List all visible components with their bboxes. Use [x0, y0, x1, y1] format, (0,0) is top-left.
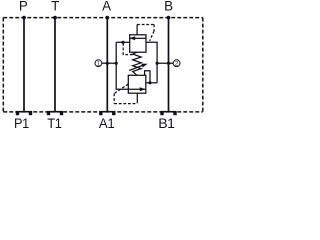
- wire left connect to upper square: [116, 41, 130, 43]
- port B1 flange symbol: [160, 111, 176, 115]
- port A1 flange symbol: [99, 111, 115, 115]
- valve lower spool arrow line: [128, 88, 145, 90]
- wire gauge line right: [157, 62, 173, 64]
- node T top junction: [53, 16, 57, 20]
- svg-text:B: B: [164, 0, 173, 14]
- wire P line: [23, 18, 25, 112]
- svg-text:A: A: [102, 0, 111, 14]
- valve upper spool arrow line: [130, 37, 146, 39]
- pilot line dashed top horizontal: [137, 24, 154, 26]
- enclosure dashed border: [3, 18, 203, 112]
- spring: [133, 52, 141, 75]
- svg-text:A1: A1: [99, 116, 115, 129]
- arrowhead adjustment arrow: [141, 64, 147, 68]
- wire upper pilot stub to dashed box: [136, 25, 138, 35]
- valve upper square V1: [130, 35, 146, 52]
- node A top junction: [105, 16, 109, 20]
- pilot line dashed drain vertical: [113, 94, 115, 104]
- measuring point circle 2: [173, 60, 180, 67]
- port P1 flange symbol: [16, 111, 32, 115]
- svg-text:T: T: [51, 0, 59, 14]
- pilot line dashed right leg: [153, 25, 155, 32]
- wire gauge line left: [102, 62, 116, 64]
- node P top junction: [22, 16, 26, 20]
- node dot left line gauge: [115, 62, 118, 65]
- wire T line: [54, 18, 56, 112]
- pilot hook to lower square top: [145, 71, 150, 83]
- arrowhead lower spool (points right): [140, 87, 146, 91]
- pilot line dashed drain diagonal: [114, 84, 128, 94]
- svg-text:T1: T1: [47, 116, 62, 129]
- node dot B gauge: [167, 62, 170, 65]
- pilot line dashed left drop: [123, 43, 133, 55]
- node dot left connect: [121, 41, 124, 44]
- node dot right line gauge: [156, 62, 159, 65]
- node dot hook junction: [148, 81, 151, 84]
- pilot line dashed diagonal: [150, 31, 155, 41]
- valve lower square V2: [128, 75, 146, 93]
- port T1 flange symbol: [47, 111, 63, 115]
- measuring point circle 1: [95, 60, 102, 67]
- wire A line: [106, 18, 108, 112]
- wire right extension from upper square: [146, 42, 157, 83]
- svg-text:B1: B1: [158, 116, 175, 129]
- pilot line dashed drain horizontal: [114, 103, 137, 105]
- adjustment arrow shaft: [129, 65, 143, 70]
- node dot A gauge: [106, 62, 109, 65]
- wire B line: [168, 18, 170, 112]
- svg-text:P: P: [19, 0, 28, 14]
- arrowhead upper spool (points left): [129, 36, 135, 40]
- wire lower right connect: [146, 82, 157, 84]
- node B top junction: [167, 16, 171, 20]
- wire lower square bottom stub: [136, 93, 138, 103]
- svg-text:P1: P1: [14, 116, 29, 129]
- wire left vertical line: [116, 42, 128, 89]
